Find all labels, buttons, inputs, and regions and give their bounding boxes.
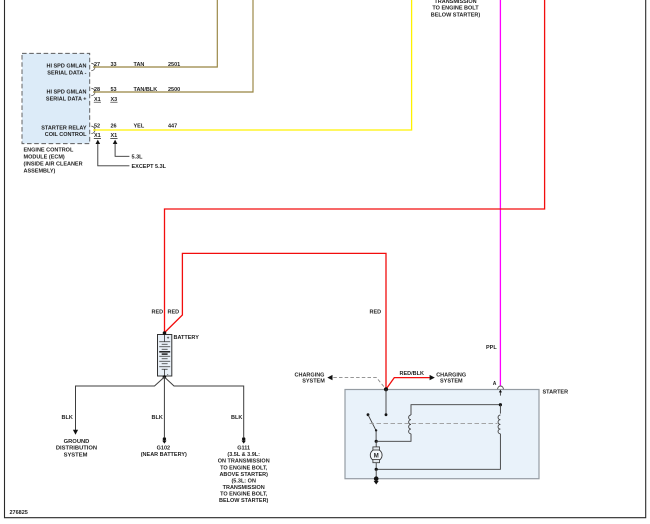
connector labels X1 X3 (pin 28) [94, 97, 117, 103]
svg-text:BLK: BLK [231, 415, 242, 421]
svg-text:+: + [167, 336, 170, 341]
starter feed junction node [384, 387, 388, 391]
wire blade to motor node [375, 430, 377, 441]
label G102 [141, 446, 187, 459]
wire PPL [499, 0, 501, 386]
svg-text:SYSTEM: SYSTEM [64, 452, 88, 458]
EXCEPT 5.3L applicability arrow (X1 pin 52) [96, 140, 101, 144]
wire RED from fuse block to battery [165, 0, 545, 333]
battery positive junction node [163, 331, 167, 335]
svg-text:TRANSMISSION: TRANSMISSION [434, 0, 476, 5]
ECM module name label [24, 147, 83, 174]
svg-text:SYSTEM: SYSTEM [302, 379, 325, 385]
label TRANSMISSION text block (top) [431, 0, 481, 18]
svg-text:BATTERY: BATTERY [174, 335, 200, 341]
svg-text:BLK: BLK [62, 415, 73, 421]
svg-text:M: M [374, 453, 379, 459]
pin 52 row labels [94, 123, 177, 129]
svg-text:(INSIDE AIR CLEANER: (INSIDE AIR CLEANER [24, 161, 83, 167]
starter case ground [374, 476, 379, 484]
svg-text:2500: 2500 [168, 87, 180, 93]
wire BLK battery to G111 [164, 377, 243, 437]
ground G111 [242, 437, 246, 443]
svg-text:TO ENGINE BOLT,: TO ENGINE BOLT, [220, 491, 268, 497]
svg-text:EXCEPT 5.3L: EXCEPT 5.3L [132, 164, 167, 170]
svg-text:PPL: PPL [486, 345, 497, 351]
svg-text:5.3L: 5.3L [132, 154, 144, 160]
svg-text:MODULE (ECM): MODULE (ECM) [24, 154, 65, 160]
wire TAN/BLK 2500 (pin 28) [93, 0, 253, 92]
ECM pin connector arc pin 27 [91, 63, 95, 70]
svg-text:276825: 276825 [10, 510, 28, 516]
svg-text:TO ENGINE BOLT: TO ENGINE BOLT [432, 6, 479, 12]
svg-text:TAN: TAN [134, 62, 145, 68]
solenoid node [499, 403, 502, 406]
ECM pin connector arc pin 28 [91, 88, 95, 95]
battery negative junction node [163, 375, 167, 379]
svg-text:YEL: YEL [134, 123, 145, 129]
svg-text:G111: G111 [237, 446, 250, 452]
pin 27 row labels [94, 62, 180, 68]
svg-text:2501: 2501 [168, 62, 180, 68]
svg-text:52: 52 [94, 123, 100, 129]
ECM internal pin function labels [41, 64, 87, 139]
svg-text:TO ENGINE BOLT,: TO ENGINE BOLT, [220, 465, 268, 471]
arrow to charging system (right) [430, 375, 435, 380]
ECM module box (engine control module) [22, 53, 90, 143]
solenoid switch blade [367, 413, 370, 416]
svg-text:ENGINE CONTROL: ENGINE CONTROL [24, 147, 74, 153]
motor top junction node [375, 440, 378, 443]
svg-text:(NEAR BATTERY): (NEAR BATTERY) [141, 452, 187, 458]
wire hold-in coil to motor bottom [376, 434, 500, 470]
svg-text:ABOVE STARTER): ABOVE STARTER) [219, 472, 268, 478]
wire to solenoid switch contact [385, 389, 387, 414]
svg-text:RED: RED [152, 310, 164, 316]
solenoid linkage (dashed) [370, 423, 498, 425]
svg-text:26: 26 [111, 123, 117, 129]
wire RED/BLK to charging system [386, 378, 430, 390]
svg-text:GROUND: GROUND [64, 439, 90, 445]
label GROUND DISTRIBUTION SYSTEM [56, 439, 97, 458]
battery B1 [158, 335, 172, 377]
svg-text:DISTRIBUTION: DISTRIBUTION [56, 446, 97, 452]
solenoid switch contact node [385, 413, 388, 416]
dashed leader to charging system (left) [333, 378, 385, 389]
label CHARGING SYSTEM (left) [295, 373, 326, 385]
svg-text:28: 28 [94, 87, 100, 93]
label G111 [218, 446, 270, 504]
wire BLK battery to ground distribution [76, 377, 165, 430]
svg-text:TRANSMISSION: TRANSMISSION [223, 485, 265, 491]
svg-text:27: 27 [94, 62, 100, 68]
svg-text:A: A [493, 381, 497, 387]
starter connector A arc [498, 386, 504, 389]
arrow to charging system (left) [327, 375, 332, 380]
svg-text:TAN/BLK: TAN/BLK [134, 87, 158, 93]
starter pin A arrow [499, 391, 501, 395]
svg-text:RED/BLK: RED/BLK [400, 371, 424, 377]
pull-in coil L1 [409, 415, 411, 434]
pin 28 row labels [94, 87, 180, 93]
wire YEL 447 (pin 52) [93, 0, 412, 130]
motor bottom junction node [375, 468, 378, 471]
svg-text:HI SPD GMLAN: HI SPD GMLAN [46, 64, 86, 70]
starter motor M [370, 441, 382, 469]
arrow to ground distribution system [73, 430, 78, 435]
svg-text:BELOW STARTER): BELOW STARTER) [431, 12, 481, 18]
wire BLK battery to G102 [163, 377, 165, 437]
svg-text:447: 447 [168, 123, 177, 129]
ECM pin connector arc pin 52 [91, 126, 95, 133]
svg-text:(5.3L: ON: (5.3L: ON [231, 478, 255, 484]
wire coil top to solenoid node [411, 405, 500, 415]
svg-text:SERIAL DATA +: SERIAL DATA + [46, 97, 87, 103]
svg-text:(3.5L & 3.9L:: (3.5L & 3.9L: [227, 452, 260, 458]
5.3L applicability arrow (X1 pin 26) [113, 140, 118, 144]
wire node to hold-in coil [499, 405, 501, 414]
ground G102 [162, 437, 166, 443]
svg-text:G102: G102 [157, 446, 170, 452]
svg-text:BELOW STARTER): BELOW STARTER) [219, 498, 269, 504]
svg-text:ASSEMBLY): ASSEMBLY) [24, 168, 56, 174]
svg-text:ON TRANSMISSION: ON TRANSMISSION [218, 459, 270, 465]
label CHARGING SYSTEM (right) [436, 373, 466, 385]
connector labels X1 X1 (pin 52) [94, 133, 117, 139]
wire RED battery to starter [165, 253, 387, 388]
wire motor to case ground [375, 469, 377, 478]
svg-text:STARTER: STARTER [543, 390, 569, 396]
svg-text:RED: RED [168, 310, 180, 316]
svg-text:STARTER RELAY: STARTER RELAY [41, 126, 87, 132]
svg-text:33: 33 [111, 62, 117, 68]
hold-in coil L2 [498, 415, 500, 434]
wire TAN 2501 (pin 27) [93, 0, 217, 67]
svg-text:53: 53 [111, 87, 117, 93]
svg-text:HI SPD GMLAN: HI SPD GMLAN [46, 90, 86, 96]
starter box [345, 390, 539, 479]
svg-text:SERIAL DATA -: SERIAL DATA - [47, 71, 86, 77]
svg-text:BLK: BLK [152, 415, 163, 421]
svg-text:COIL CONTROL: COIL CONTROL [45, 132, 87, 138]
svg-text:RED: RED [370, 310, 382, 316]
svg-text:SYSTEM: SYSTEM [440, 379, 463, 385]
wire node to pull-in coil bottom [376, 434, 411, 442]
